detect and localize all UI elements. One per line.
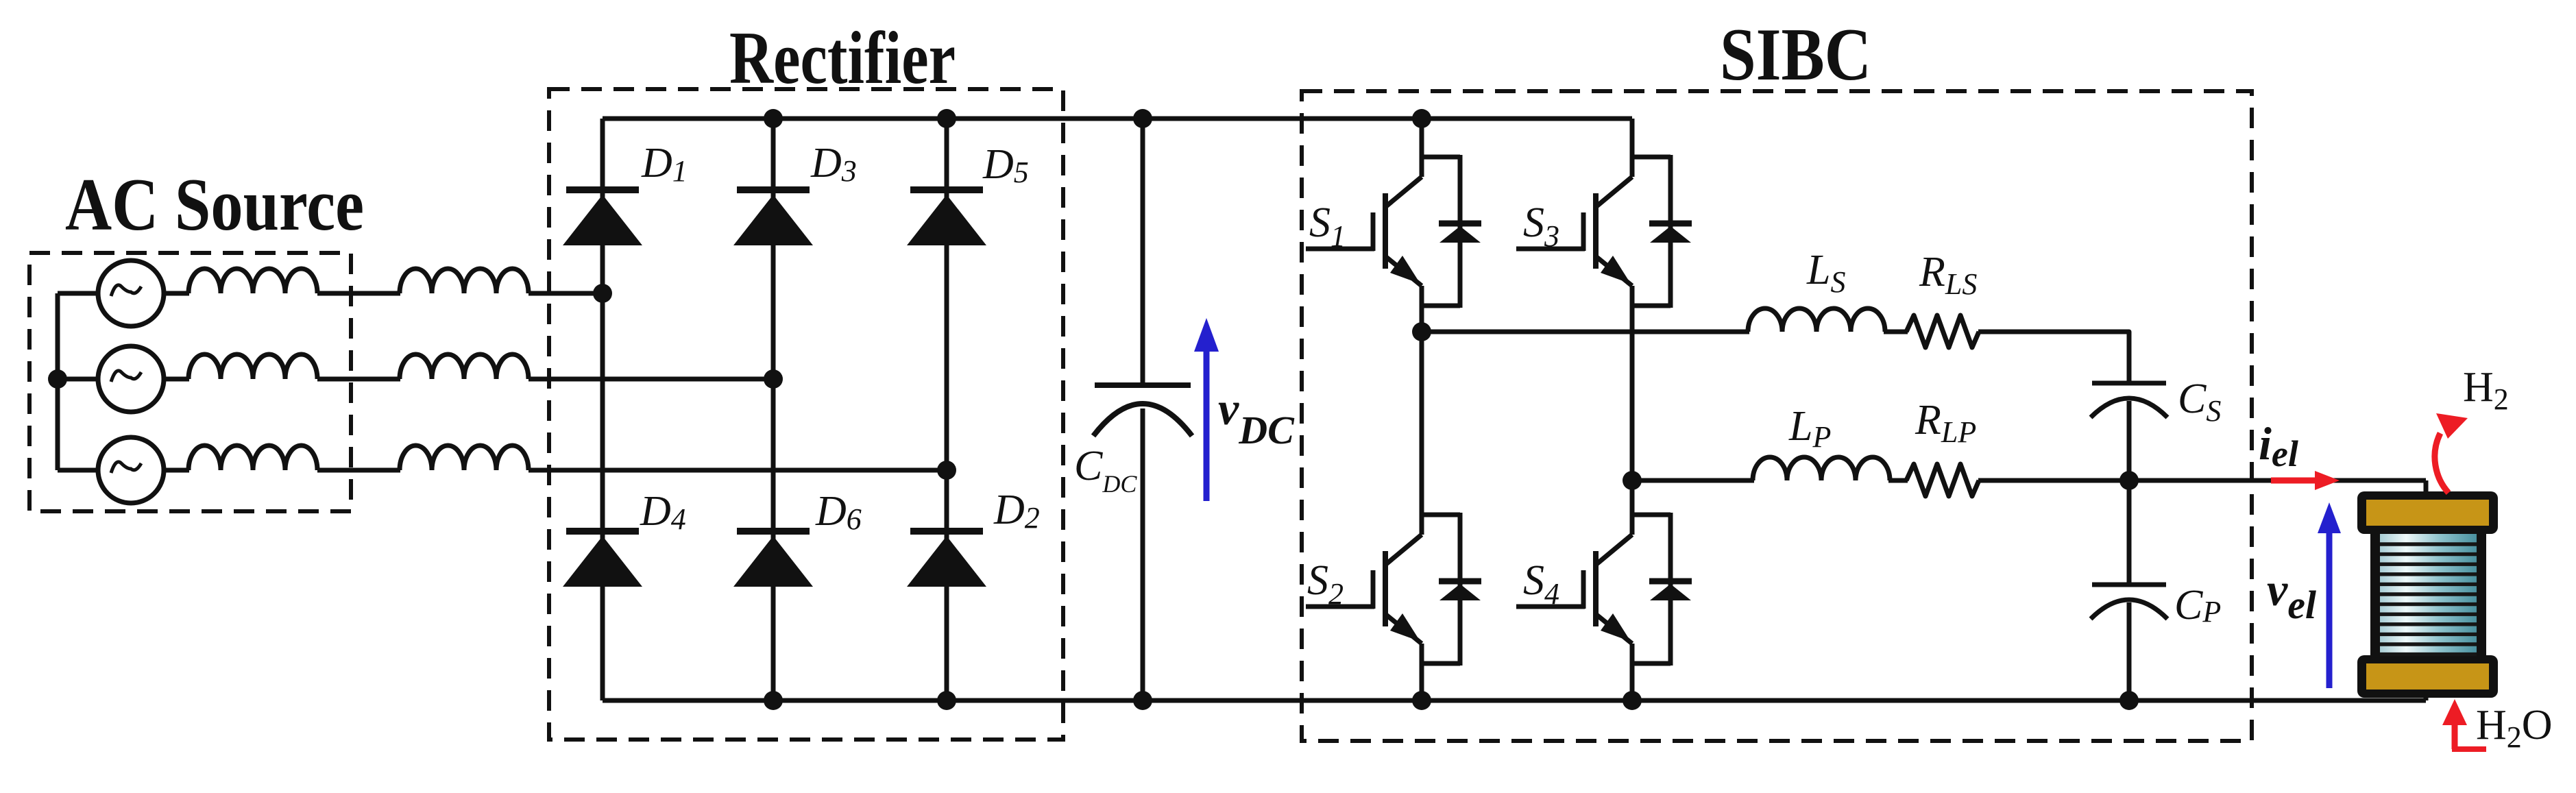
wire [164, 377, 189, 382]
arrow H2O [2442, 699, 2486, 749]
node B [764, 369, 783, 389]
wire [528, 468, 947, 473]
arrow vel [2318, 502, 2341, 688]
diode D3 [733, 190, 813, 245]
label S4 [1523, 557, 1559, 611]
wire [528, 377, 773, 382]
wire [2127, 401, 2132, 480]
wire [1422, 330, 1749, 334]
diode D1 [563, 190, 642, 245]
AC Source title [65, 163, 364, 246]
wire [600, 119, 605, 700]
diode D5 [907, 190, 986, 245]
wire [58, 468, 98, 473]
diode D2 [907, 531, 986, 587]
inductor [189, 354, 317, 379]
label D3 [810, 140, 857, 188]
source Vb [98, 346, 164, 412]
svg-text:AC Source: AC Source [65, 163, 364, 246]
label CDC [1074, 443, 1137, 498]
arrow vDC [1194, 318, 1219, 501]
wire [317, 291, 400, 296]
IGBT S3 [1516, 119, 1692, 480]
Rectifier box [549, 89, 1063, 740]
node [2119, 471, 2139, 490]
wire DC+ bus [603, 117, 1632, 121]
inductor [400, 446, 528, 470]
svg-text:Rectifier: Rectifier [729, 16, 956, 99]
label D5 [982, 141, 1029, 189]
label H2O [2476, 702, 2553, 754]
capacitor CS [2091, 383, 2167, 417]
wire [317, 377, 400, 382]
inductor [400, 354, 528, 379]
inductor [189, 269, 317, 293]
wire [1141, 408, 1145, 700]
capacitor CP [2091, 585, 2167, 619]
label RLP [1915, 397, 1976, 449]
SIBC box [1302, 91, 2252, 741]
wire [771, 119, 776, 700]
wire [1978, 478, 2426, 483]
IGBT S2 [1306, 332, 1481, 700]
source Va [98, 260, 164, 326]
label S1 [1309, 199, 1346, 253]
wire [2424, 685, 2429, 700]
diode D4 [563, 531, 642, 587]
node [937, 109, 956, 128]
inductor LS [1748, 308, 1885, 332]
inductor [400, 269, 528, 293]
wire [1141, 119, 1145, 385]
AC Source box [29, 253, 351, 511]
capacitor CDC [1093, 385, 1192, 436]
resistor RLS [1906, 315, 1979, 347]
node A [593, 284, 612, 303]
source Vc [98, 437, 164, 503]
arrow iel [2271, 471, 2340, 490]
node [1623, 691, 1642, 710]
node [2119, 691, 2139, 710]
label LS [1806, 247, 1845, 299]
label H2 [2463, 364, 2509, 416]
node [937, 691, 956, 710]
label vDC [1218, 382, 1295, 452]
wire DC- bus [603, 698, 2426, 703]
node [1412, 109, 1431, 128]
node C [937, 461, 956, 480]
IGBT S1 [1306, 119, 1481, 332]
label CS [2178, 376, 2221, 428]
wire [164, 291, 189, 296]
node [1133, 109, 1152, 128]
label vel [2267, 563, 2317, 627]
label LP [1788, 403, 1831, 454]
wire [945, 119, 949, 700]
inductor LP [1753, 457, 1890, 480]
wire [58, 377, 99, 382]
wire [2424, 480, 2429, 495]
node [764, 109, 783, 128]
node [1623, 471, 1642, 490]
wire [528, 291, 603, 296]
wire [2127, 602, 2132, 700]
label D4 [640, 488, 686, 536]
Rectifier title [729, 16, 956, 99]
node [1412, 322, 1431, 341]
label RLS [1919, 249, 1977, 301]
label CP [2174, 582, 2221, 629]
wire [317, 468, 400, 473]
label D1 [641, 140, 688, 188]
wire [2127, 480, 2132, 585]
label D2 [993, 487, 1040, 535]
IGBT S4 [1516, 480, 1692, 700]
label iel [2259, 417, 2298, 474]
resistor RLP [1906, 464, 1979, 496]
node N [48, 369, 67, 389]
wire [56, 293, 60, 470]
diode D6 [733, 531, 813, 587]
label S3 [1523, 199, 1559, 253]
wire [1888, 478, 1908, 483]
node [1412, 691, 1431, 710]
wire [1884, 330, 1908, 334]
node [1133, 691, 1152, 710]
wire [164, 468, 189, 473]
wire [1978, 332, 2129, 385]
inductor [189, 446, 317, 470]
arrow H2 [2435, 413, 2468, 493]
label S2 [1307, 557, 1344, 611]
wire [1632, 478, 1754, 483]
electrolyzer stack [2357, 491, 2498, 698]
SIBC title [1720, 13, 1871, 96]
label D6 [815, 488, 862, 536]
svg-text:SIBC: SIBC [1720, 13, 1871, 96]
node [764, 691, 783, 710]
wire [58, 291, 98, 296]
